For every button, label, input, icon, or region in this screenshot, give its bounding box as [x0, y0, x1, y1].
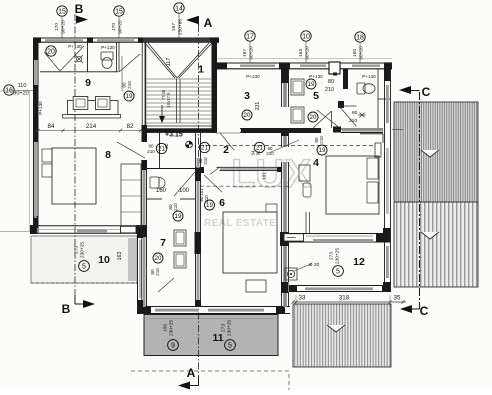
svg-text:210: 210	[319, 136, 324, 144]
svg-text:20: 20	[244, 112, 251, 119]
svg-text:110: 110	[18, 83, 27, 89]
svg-text:230+25: 230+25	[169, 320, 175, 336]
svg-text:273: 273	[74, 246, 80, 254]
svg-text:210: 210	[173, 203, 178, 211]
svg-text:17: 17	[246, 34, 254, 41]
svg-text:P+130: P+130	[309, 74, 323, 79]
svg-text:Ø 20: Ø 20	[309, 262, 320, 268]
svg-text:19: 19	[175, 213, 182, 220]
svg-text:19: 19	[319, 147, 326, 154]
svg-text:B: B	[75, 2, 84, 16]
svg-text:33: 33	[299, 295, 306, 302]
svg-text:80: 80	[164, 143, 169, 148]
svg-text:12: 12	[353, 256, 365, 268]
svg-text:210: 210	[155, 268, 160, 276]
svg-text:90+20: 90+20	[305, 46, 311, 60]
svg-text:210: 210	[325, 87, 334, 93]
svg-text:117: 117	[166, 58, 172, 67]
svg-text:91: 91	[255, 150, 260, 155]
svg-text:90+20: 90+20	[118, 20, 124, 34]
svg-text:5: 5	[82, 264, 86, 271]
svg-text:9: 9	[85, 77, 91, 89]
svg-text:21: 21	[201, 145, 208, 152]
svg-text:REAL ESTATE: REAL ESTATE	[204, 218, 276, 229]
svg-text:90+20: 90+20	[13, 91, 28, 97]
svg-text:170: 170	[54, 23, 60, 31]
svg-text:210: 210	[204, 195, 209, 203]
svg-text:15: 15	[115, 9, 123, 16]
svg-text:10: 10	[302, 34, 310, 41]
svg-text:230+25: 230+25	[227, 320, 233, 336]
svg-text:A: A	[204, 16, 213, 30]
svg-text:210: 210	[147, 149, 155, 154]
svg-text:1: 1	[198, 64, 204, 76]
svg-text:P+130: P+130	[68, 44, 82, 49]
svg-text:273: 273	[221, 324, 227, 332]
svg-text:5: 5	[313, 90, 319, 102]
svg-text:16x17.5: 16x17.5	[166, 92, 171, 108]
svg-text:14: 14	[175, 6, 183, 13]
svg-text:273: 273	[329, 252, 335, 260]
svg-text:8: 8	[105, 149, 111, 161]
svg-text:80: 80	[352, 110, 358, 116]
svg-text:160: 160	[156, 188, 167, 194]
svg-text:163: 163	[298, 49, 304, 57]
svg-text:+3.15: +3.15	[165, 132, 183, 139]
svg-text:214: 214	[86, 123, 97, 130]
svg-text:101: 101	[262, 172, 267, 180]
svg-text:230+25: 230+25	[335, 248, 341, 264]
svg-text:19: 19	[308, 81, 315, 88]
svg-text:P+130: P+130	[38, 101, 43, 115]
svg-text:35: 35	[394, 295, 401, 302]
svg-text:170: 170	[111, 23, 117, 31]
svg-text:B: B	[62, 302, 71, 316]
svg-text:19: 19	[126, 93, 133, 100]
svg-text:11: 11	[212, 332, 223, 344]
svg-text:C: C	[420, 304, 429, 318]
svg-text:230+25: 230+25	[80, 242, 86, 258]
svg-text:5: 5	[336, 269, 340, 276]
svg-text:210: 210	[127, 81, 132, 89]
svg-text:80: 80	[328, 79, 334, 85]
svg-text:P+130: P+130	[362, 74, 376, 79]
svg-text:P+130: P+130	[101, 45, 115, 50]
svg-text:6: 6	[219, 197, 225, 209]
svg-text:101: 101	[199, 188, 204, 196]
svg-text:210: 210	[203, 157, 208, 165]
svg-text:90+20: 90+20	[359, 46, 365, 60]
svg-text:210: 210	[266, 151, 274, 156]
svg-text:84: 84	[48, 123, 55, 130]
svg-text:80: 80	[122, 82, 127, 88]
svg-text:4: 4	[313, 157, 319, 169]
svg-text:106: 106	[163, 324, 169, 332]
svg-text:18: 18	[356, 35, 364, 42]
svg-text:A: A	[187, 366, 196, 380]
svg-text:250+85: 250+85	[178, 19, 184, 35]
svg-text:90: 90	[148, 144, 154, 149]
svg-text:90+20: 90+20	[249, 46, 255, 60]
svg-text:3: 3	[244, 90, 250, 102]
svg-text:231: 231	[255, 102, 261, 111]
svg-text:160: 160	[352, 49, 358, 57]
svg-text:C: C	[422, 85, 431, 99]
svg-text:15: 15	[58, 9, 66, 16]
svg-text:10: 10	[98, 254, 110, 266]
svg-text:163: 163	[117, 252, 123, 261]
svg-text:5: 5	[228, 343, 232, 350]
svg-text:210: 210	[349, 118, 357, 124]
svg-text:197: 197	[171, 23, 177, 31]
svg-text:9: 9	[171, 343, 175, 350]
svg-text:20: 20	[47, 49, 55, 56]
svg-text:82: 82	[127, 123, 134, 130]
svg-text:197: 197	[242, 49, 248, 57]
svg-text:2: 2	[223, 144, 229, 156]
svg-text:7: 7	[160, 237, 166, 249]
svg-text:20: 20	[155, 255, 162, 262]
svg-text:2.65: 2.65	[195, 242, 201, 252]
svg-text:20: 20	[310, 114, 317, 121]
svg-text:318: 318	[339, 295, 350, 302]
svg-text:90+20: 90+20	[61, 20, 67, 34]
svg-text:P+130: P+130	[246, 74, 260, 79]
